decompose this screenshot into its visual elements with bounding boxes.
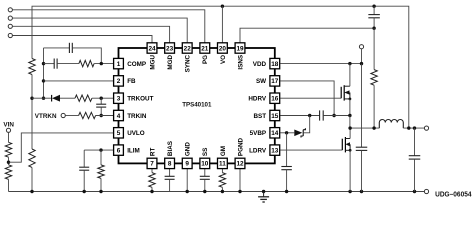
wire RT to rail [151, 187, 153, 191]
junction rail out cap [413, 190, 416, 193]
pin 21 PG [200, 43, 210, 64]
wire track cap upper [100, 98, 102, 104]
wire ILIM res upper [100, 150, 102, 165]
wire comp top left [44, 47, 70, 49]
svg-text:17: 17 [271, 78, 279, 85]
label VIN [3, 122, 14, 129]
svg-text:GND: GND [185, 142, 192, 156]
svg-text:9: 9 [185, 161, 189, 168]
wire SW node line [350, 127, 379, 129]
junction rail RT [150, 190, 153, 193]
junction UVLO node [7, 161, 10, 164]
svg-text:10: 10 [201, 161, 209, 168]
wire UVLO tap [9, 133, 114, 162]
svg-text:ISNS: ISNS [237, 55, 244, 70]
junction ISNS sense node [372, 27, 375, 30]
svg-text:UDG–06054: UDG–06054 [435, 191, 471, 198]
resistor ILIM [98, 165, 104, 178]
svg-text:LDRV: LDRV [249, 147, 267, 154]
wire BST row left [280, 115, 320, 117]
pin 17 SW [256, 76, 280, 86]
wire comp row mid [57, 63, 79, 65]
svg-text:3: 3 [117, 96, 121, 103]
wire comp top right [72, 48, 101, 64]
pin 14 5VBP [250, 128, 280, 138]
junction TRKOUT cap node [100, 97, 103, 100]
wire ISNS [240, 28, 374, 43]
capacitor sense [368, 15, 380, 18]
svg-text:SS: SS [202, 148, 209, 156]
ground symbol [258, 192, 269, 203]
junction rail SS [203, 190, 206, 193]
wire ILIM res lower [100, 178, 102, 191]
terminal input 5V [359, 45, 363, 49]
junction rail 5VBP cap [285, 190, 288, 193]
wire VO rail [32, 6, 409, 128]
svg-text:HDRV: HDRV [248, 96, 267, 103]
svg-text:PG: PG [202, 55, 209, 64]
resistor feedback lower [29, 149, 35, 167]
junction ILIM res node [99, 148, 102, 151]
svg-text:TRKOUT: TRKOUT [127, 96, 153, 103]
svg-text:20: 20 [219, 45, 227, 52]
resistor comp [79, 60, 94, 66]
pin 7 RT [147, 148, 157, 169]
junction FB node COMP row [42, 62, 45, 65]
terminal VTRKN [61, 113, 65, 117]
pin 1 COMP [114, 58, 147, 68]
diode bootstrap schottky [294, 128, 305, 137]
capacitor SS [200, 176, 210, 179]
pin 20 VO [218, 43, 228, 64]
svg-text:COMP: COMP [127, 61, 146, 68]
terminal input SYNC [8, 16, 12, 20]
wire input terminal [361, 49, 363, 64]
pin 13 LDRV [249, 145, 280, 155]
junction rail PGND pin [238, 190, 241, 193]
resistor TRKIN [79, 112, 96, 118]
label UDG-06054 [435, 191, 471, 198]
junction rail GM [221, 190, 224, 193]
junction rail vdd cap [360, 190, 363, 193]
wire high fet source [349, 99, 351, 116]
wire 5VBP cap lower [286, 170, 288, 192]
svg-text:RT: RT [149, 148, 156, 157]
wire RT stub [151, 169, 153, 173]
wire output node [403, 127, 424, 129]
wire 5VBP row [280, 132, 294, 134]
svg-text:VO: VO [220, 55, 227, 64]
wire out cap lower [414, 159, 416, 191]
wire TRKOUT mid [60, 97, 75, 99]
transistor low-side NFET [342, 137, 351, 152]
capacitor comp top [69, 43, 72, 53]
wire ILIM row [84, 149, 113, 151]
wire terminal to pin 21 [12, 10, 204, 43]
pin 3 TRKOUT [114, 93, 154, 103]
junction rail ILIM res [99, 190, 102, 193]
pin 10 SS [200, 148, 210, 169]
svg-text:SYNC: SYNC [185, 54, 192, 72]
capacitor comp series [54, 59, 57, 69]
svg-text:13: 13 [271, 147, 279, 154]
svg-text:14: 14 [271, 130, 279, 137]
wire UVLO to rail [8, 179, 10, 191]
pin 22 SYNC [182, 43, 192, 73]
svg-text:5: 5 [117, 130, 121, 137]
svg-text:21: 21 [201, 45, 209, 52]
pin 8 BIAS [165, 141, 175, 169]
svg-text:15: 15 [271, 113, 279, 120]
junction 5VBP node [285, 131, 288, 134]
terminal input MGU [8, 33, 12, 37]
svg-text:BIAS: BIAS [167, 141, 174, 156]
svg-text:UVLO: UVLO [127, 130, 145, 137]
svg-text:VTRKN: VTRKN [35, 113, 57, 120]
wire out cap upper [414, 128, 416, 156]
svg-text:22: 22 [184, 45, 192, 52]
wire TRKIN right [96, 115, 114, 117]
resistor RT [149, 173, 155, 188]
wire TRKOUT right [92, 97, 114, 99]
wire VDD row [280, 63, 361, 65]
svg-text:VDD: VDD [253, 61, 267, 68]
pin 24 MGU [147, 43, 157, 70]
junction FB node TRKOUT row [42, 97, 45, 100]
wire sense cap lower [373, 18, 375, 28]
wire GM stub [221, 169, 223, 173]
capacitor 5VBP bypass [281, 167, 292, 170]
pin 18 VDD [253, 58, 280, 68]
transistor high-side NFET [341, 85, 351, 100]
wire VIN down [8, 132, 10, 142]
junction rail ILIM cap [83, 190, 86, 193]
wire 5VBP cap upper [286, 133, 288, 167]
svg-text:2: 2 [117, 78, 121, 85]
wire comp row right [94, 63, 114, 65]
resistor feedback upper [29, 59, 35, 75]
junction output cap [413, 126, 416, 129]
svg-text:MGD: MGD [167, 54, 174, 69]
wire terminal to pin 22 [12, 18, 187, 43]
terminal input MGD [8, 24, 12, 28]
wire PGND to rail [239, 169, 241, 192]
junction rail low fet source [348, 190, 351, 193]
pin 12 PGND [235, 137, 245, 168]
svg-text:ILIM: ILIM [127, 147, 140, 154]
capacitor input bypass [356, 147, 368, 150]
svg-text:MGU: MGU [149, 54, 156, 69]
svg-text:TRKIN: TRKIN [127, 113, 147, 120]
pin 6 ILIM [114, 145, 140, 155]
svg-text:4: 4 [117, 113, 121, 120]
terminal ground output [424, 189, 428, 193]
wire track cap lower [100, 107, 102, 115]
wire BIAS stub [169, 169, 171, 177]
svg-text:19: 19 [236, 45, 244, 52]
wire terminal to pin 24 [12, 36, 152, 43]
svg-text:18: 18 [271, 61, 279, 68]
wire SS stub [204, 169, 206, 177]
wire comp row left [44, 63, 55, 65]
svg-text:12: 12 [236, 161, 244, 168]
svg-text:24: 24 [148, 45, 156, 52]
svg-text:6: 6 [117, 147, 121, 154]
wire FB node vertical [43, 48, 45, 98]
diode TRKOUT [52, 95, 60, 102]
wire TRKOUT left [32, 97, 51, 99]
svg-text:PGND: PGND [237, 137, 244, 156]
wire divider mid [31, 75, 33, 150]
junction SW BST [332, 114, 335, 117]
wire TRKIN left [65, 115, 78, 117]
svg-text:7: 7 [150, 161, 154, 168]
junction divider TRKOUT node [30, 97, 33, 100]
wire HDRV row [280, 97, 341, 99]
svg-text:8: 8 [168, 161, 172, 168]
junction TRKIN cap node [100, 114, 103, 117]
junction rail earth stem [262, 190, 265, 193]
resistor GM [219, 173, 225, 188]
wire BST row right [323, 115, 350, 117]
junction comp pin node [100, 62, 103, 65]
op-amp U1 TPS40101 body [119, 48, 275, 163]
capacitor ILIM [79, 167, 89, 170]
junction VO rail sense cap [372, 5, 375, 8]
wire high fet drain [349, 64, 351, 87]
svg-text:GM: GM [220, 146, 227, 156]
svg-text:BST: BST [253, 113, 266, 120]
wire ground rail [9, 191, 425, 193]
terminal VOUT [424, 126, 428, 130]
inductor output [379, 120, 403, 129]
wire ILIM cap lower [83, 170, 85, 191]
pin 9 GND [182, 142, 192, 169]
svg-text:SW: SW [256, 78, 266, 85]
svg-text:23: 23 [166, 45, 174, 52]
resistor UVLO upper [5, 142, 11, 157]
wire GND to rail [186, 169, 188, 192]
wire sense res upper [373, 28, 375, 69]
wire UVLO node [8, 157, 10, 165]
wire terminal to pin 23 [12, 26, 169, 43]
wire GM to rail [221, 187, 223, 191]
wire SW row [280, 81, 334, 116]
junction output VO rail [407, 126, 410, 129]
label TPS40101 [182, 102, 212, 109]
junction BST fet source [348, 114, 351, 117]
pin 19 ISNS [235, 43, 245, 70]
pin 23 MGD [165, 43, 175, 70]
junction rail GND pin [186, 190, 189, 193]
wire input cap upper [361, 64, 363, 148]
svg-text:VIN: VIN [3, 122, 14, 129]
capacitor BIAS [165, 176, 175, 179]
capacitor BST [320, 110, 324, 120]
terminal input PG [8, 8, 12, 12]
junction VO rail pin20 [221, 5, 224, 8]
capacitor output [409, 156, 421, 159]
resistor TRKOUT [75, 95, 92, 101]
svg-text:11: 11 [219, 161, 226, 168]
pin 15 BST [253, 110, 279, 120]
wire divider to ground [31, 168, 33, 192]
junction VDD input [360, 62, 363, 65]
pin 16 HDRV [248, 93, 279, 103]
wire pin20 VO stub [221, 6, 223, 43]
svg-text:FB: FB [127, 78, 136, 85]
wire ILIM cap upper [83, 150, 85, 167]
junction SW sense res [372, 126, 375, 129]
junction VDD fet drain [348, 62, 351, 65]
label VTRKN [35, 113, 57, 120]
wire SW node down [349, 116, 351, 129]
svg-text:1: 1 [117, 61, 121, 68]
terminal VIN [6, 128, 10, 132]
junction rail divider [30, 190, 33, 193]
wire diode to BST [304, 116, 310, 133]
svg-text:TPS40101: TPS40101 [182, 102, 212, 109]
wire FB row [44, 80, 114, 82]
capacitor track [96, 104, 106, 107]
wire input cap lower [361, 150, 363, 191]
wire low fet source [349, 150, 351, 191]
wire SS to rail [204, 179, 206, 191]
junction SW node fet [348, 126, 351, 129]
wire sense cap upper [373, 6, 375, 14]
wire LDRV row [280, 149, 342, 151]
junction FB node FB row [42, 79, 45, 82]
svg-text:5VBP: 5VBP [250, 130, 266, 137]
wire BIAS to rail [169, 179, 171, 191]
pin 4 TRKIN [114, 110, 147, 120]
pin 2 FB [114, 76, 136, 86]
resistor sense [371, 70, 377, 86]
wire low fet drain [349, 128, 351, 138]
pin 5 UVLO [114, 128, 145, 138]
pin 11 GM [218, 146, 228, 169]
junction BST diode node [308, 114, 311, 117]
wire sense res lower [373, 85, 375, 128]
resistor UVLO lower [5, 165, 11, 180]
svg-text:16: 16 [271, 96, 279, 103]
